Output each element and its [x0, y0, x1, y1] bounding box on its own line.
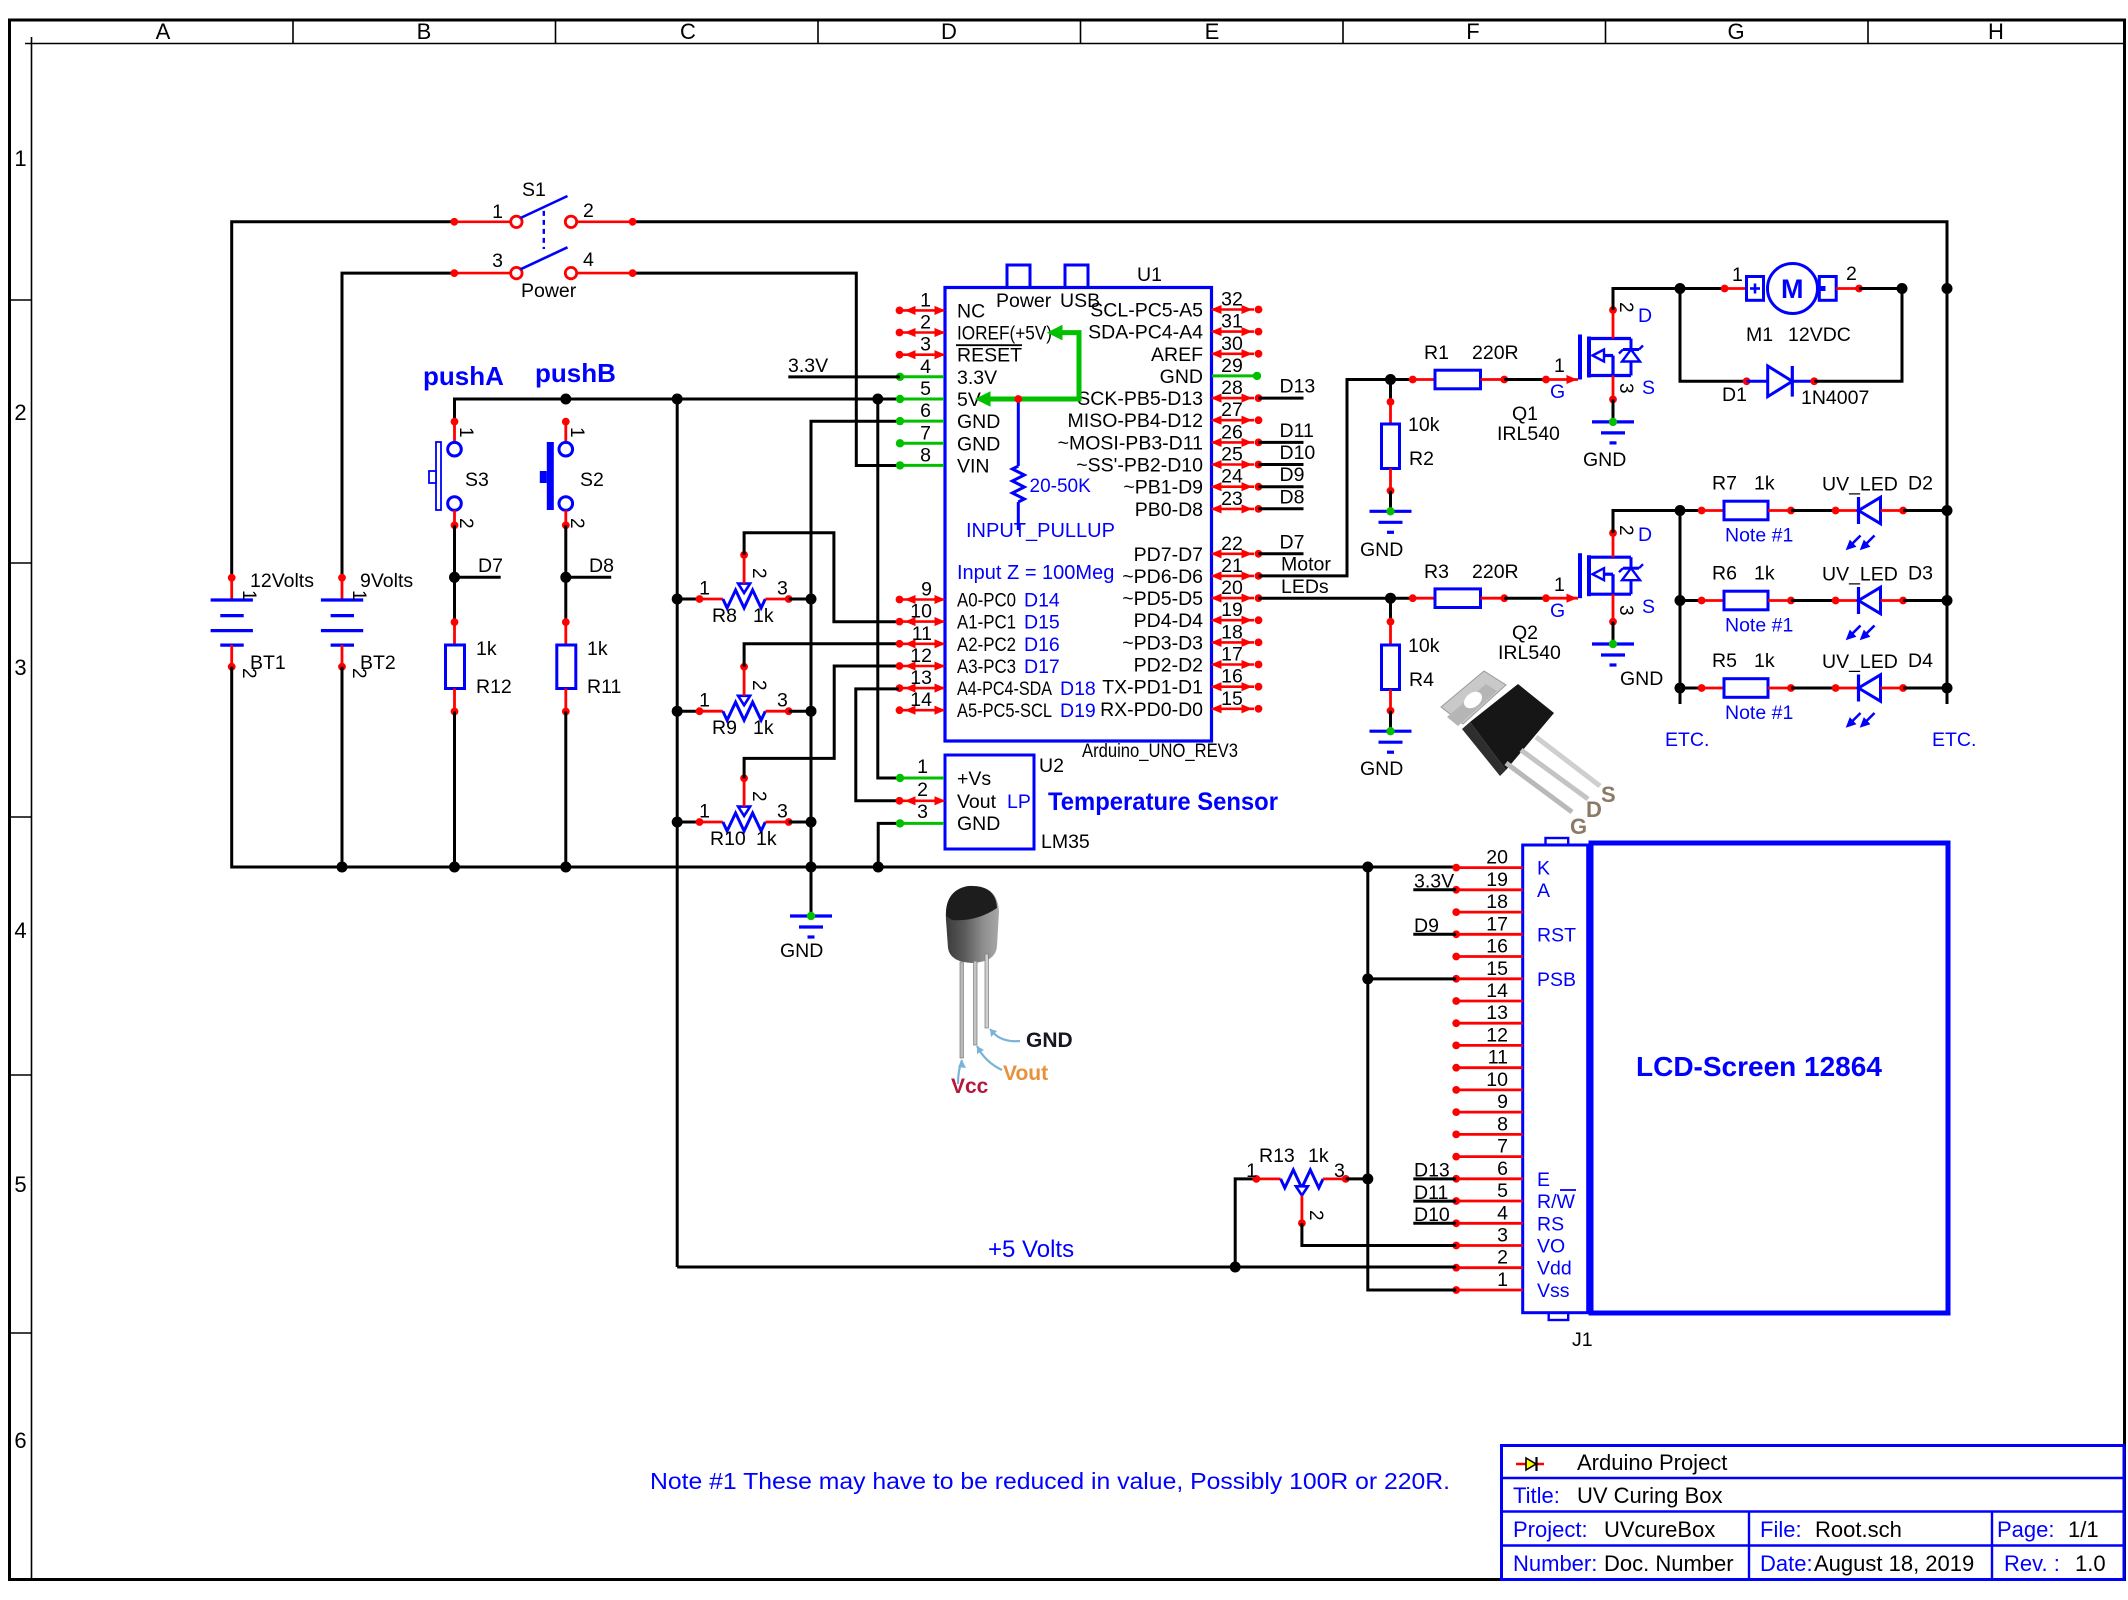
- svg-text:10k: 10k: [1408, 414, 1440, 436]
- svg-text:Arduino_UNO_REV3: Arduino_UNO_REV3: [1082, 740, 1238, 762]
- svg-text:2: 2: [748, 680, 769, 691]
- svg-text:29: 29: [1221, 355, 1243, 377]
- resistor R4 10k: [1382, 598, 1400, 731]
- svg-text:3.3V: 3.3V: [957, 367, 997, 389]
- U1 pin 9 A0-PC0 D14: [896, 579, 1060, 612]
- svg-text:Project:: Project:: [1513, 1517, 1588, 1542]
- svg-text:D1: D1: [1722, 384, 1747, 406]
- svg-text:1: 1: [566, 427, 587, 438]
- svg-text:UV_LED: UV_LED: [1822, 651, 1898, 673]
- TO-92 annotation arrows: [958, 1029, 1020, 1084]
- resistor R1 220R: [1391, 370, 1509, 389]
- U1 pin 12 A3-PC3 D17: [896, 645, 1060, 678]
- svg-text:U1: U1: [1137, 264, 1162, 286]
- svg-text:18: 18: [1221, 621, 1243, 643]
- svg-text:D17: D17: [1024, 656, 1060, 678]
- svg-text:SCK-PB5-D13: SCK-PB5-D13: [1077, 388, 1203, 410]
- svg-text:A5-PC5-SCL: A5-PC5-SCL: [957, 700, 1052, 722]
- svg-text:25: 25: [1221, 444, 1243, 466]
- svg-text:32: 32: [1221, 289, 1243, 311]
- svg-text:21: 21: [1221, 555, 1243, 577]
- wire R9 wiper to pin11 A2: [744, 644, 899, 667]
- svg-text:19: 19: [1221, 599, 1243, 621]
- U1 pin 1 NC: [896, 289, 986, 322]
- U1 pin 16 TX-PD1-D1: [1102, 666, 1262, 699]
- svg-text:GND: GND: [1360, 758, 1403, 780]
- svg-text:2: 2: [583, 200, 594, 222]
- svg-text:2: 2: [748, 568, 769, 579]
- wire S2 to node D8: [564, 525, 567, 577]
- U1 pin 28 SCK-PB5-D13: [1077, 377, 1262, 410]
- wire +5V pot bus: [676, 399, 679, 1267]
- svg-text:Rev. :: Rev. :: [2004, 1551, 2060, 1576]
- svg-text:9Volts: 9Volts: [360, 570, 413, 592]
- node R3 junction: [1385, 593, 1396, 604]
- svg-text:20-50K: 20-50K: [1030, 476, 1092, 497]
- svg-text:D14: D14: [1024, 590, 1060, 612]
- svg-text:R9: R9: [712, 717, 737, 739]
- svg-text:Vcc: Vcc: [951, 1075, 989, 1098]
- svg-text:Vout: Vout: [957, 791, 997, 813]
- svg-text:Q2: Q2: [1512, 622, 1538, 644]
- J1 pin 16: [1452, 936, 1522, 961]
- battery BT1: [211, 574, 253, 671]
- svg-text:D10: D10: [1280, 442, 1316, 464]
- resistor 20-50K pullup: [1012, 395, 1024, 530]
- svg-text:August 18, 2019: August 18, 2019: [1814, 1551, 1974, 1576]
- svg-text:Arduino Project: Arduino Project: [1577, 1450, 1727, 1475]
- wire BT1- to ground rail: [232, 667, 342, 867]
- wire from S1 pin3 to BT2+: [342, 273, 454, 578]
- svg-text:K: K: [1537, 858, 1550, 880]
- switch S1: [450, 196, 636, 279]
- svg-text:10k: 10k: [1408, 635, 1440, 657]
- svg-text:Date:: Date:: [1760, 1551, 1813, 1576]
- svg-text:RS: RS: [1537, 1213, 1564, 1235]
- svg-text:10: 10: [1486, 1069, 1508, 1091]
- svg-text:5: 5: [14, 1172, 26, 1197]
- svg-text:2: 2: [1497, 1247, 1508, 1269]
- U1 power connector tab: [1007, 265, 1030, 288]
- J1 pin 5: [1452, 1180, 1576, 1213]
- photo TO-92 LM35 package: [946, 886, 999, 1058]
- wire BT2- to ground rail: [341, 667, 344, 867]
- wire R1 to Q1 gate: [1504, 378, 1546, 381]
- svg-text:16: 16: [1486, 936, 1508, 958]
- J1 pin 4: [1452, 1202, 1564, 1235]
- svg-text:13: 13: [1486, 1002, 1508, 1024]
- svg-text:1k: 1k: [753, 605, 774, 627]
- U1 pin 27 MISO-PB4-D12: [1068, 399, 1263, 432]
- svg-text:2: 2: [920, 312, 931, 334]
- J1 pin 18: [1452, 891, 1522, 916]
- svg-text:G: G: [1570, 814, 1587, 839]
- svg-text:11: 11: [1488, 1047, 1508, 1069]
- svg-text:D9: D9: [1280, 464, 1305, 486]
- J1 pin 14: [1452, 980, 1522, 1005]
- svg-text:D11: D11: [1280, 420, 1314, 442]
- svg-text:IOREF(+5V): IOREF(+5V): [957, 323, 1052, 345]
- svg-text:UV Curing Box: UV Curing Box: [1577, 1483, 1723, 1508]
- svg-text:1: 1: [920, 289, 931, 311]
- svg-text:+Vs: +Vs: [957, 768, 991, 790]
- svg-text:3: 3: [917, 801, 928, 823]
- svg-text:3: 3: [492, 250, 503, 272]
- node D8: [560, 572, 571, 583]
- svg-text:Power: Power: [521, 280, 577, 302]
- svg-text:8: 8: [1497, 1113, 1508, 1135]
- svg-text:12VDC: 12VDC: [1788, 324, 1851, 346]
- svg-text:20: 20: [1221, 577, 1243, 599]
- svg-text:D2: D2: [1908, 473, 1933, 495]
- svg-text:~SS'-PB2-D10: ~SS'-PB2-D10: [1076, 455, 1203, 477]
- resistor R12: [446, 577, 465, 872]
- svg-text:Note #1: Note #1: [1725, 525, 1793, 547]
- svg-text:1k: 1k: [587, 638, 608, 660]
- svg-text:Number:: Number:: [1513, 1551, 1597, 1576]
- svg-text:~PB1-D9: ~PB1-D9: [1123, 477, 1203, 499]
- J1 pin 2: [1452, 1247, 1571, 1280]
- svg-text:PB0-D8: PB0-D8: [1135, 499, 1203, 521]
- U1 pin 26 ~MOSI-PB3-D11: [1058, 421, 1263, 454]
- net D9 at pin24: [1259, 485, 1304, 488]
- Q1 drain lead: [1612, 310, 1615, 339]
- svg-text:Title:: Title:: [1513, 1483, 1560, 1508]
- J1 pin 10: [1452, 1069, 1522, 1094]
- svg-text:A4-PC4-SDA: A4-PC4-SDA: [957, 678, 1052, 700]
- svg-text:19: 19: [1486, 869, 1508, 891]
- svg-text:18: 18: [1486, 891, 1508, 913]
- svg-text:R5: R5: [1712, 650, 1737, 672]
- U1 pin 23 PB0-D8: [1135, 488, 1263, 521]
- wire R10 wiper to pin12 A3: [744, 666, 899, 778]
- svg-text:BT2: BT2: [360, 652, 396, 674]
- svg-text:6: 6: [1497, 1158, 1508, 1180]
- svg-text:VO: VO: [1537, 1236, 1565, 1258]
- svg-text:UV_LED: UV_LED: [1822, 474, 1898, 496]
- svg-text:D13: D13: [1280, 376, 1316, 398]
- svg-text:D18: D18: [1060, 678, 1096, 700]
- wire LEDs net pin20 to R3 junction: [1259, 597, 1391, 600]
- svg-text:R10: R10: [710, 828, 746, 850]
- svg-text:GND: GND: [957, 813, 1000, 835]
- svg-text:PD2-D2: PD2-D2: [1134, 655, 1203, 677]
- svg-text:LCD-Screen 12864: LCD-Screen 12864: [1636, 1051, 1882, 1082]
- svg-text:D4: D4: [1908, 650, 1933, 672]
- svg-text:14: 14: [1486, 980, 1508, 1002]
- photo TO-220 IRL540 package: [1441, 671, 1600, 812]
- Q2 source lead: [1612, 594, 1615, 622]
- svg-text:ETC.: ETC.: [1932, 729, 1976, 751]
- svg-text:A3-PC3: A3-PC3: [957, 656, 1016, 678]
- J1 pin 13: [1452, 1002, 1522, 1027]
- svg-text:15: 15: [1221, 688, 1243, 710]
- svg-text:G: G: [1727, 19, 1744, 44]
- svg-text:H: H: [1988, 19, 2004, 44]
- svg-text:D13: D13: [1414, 1160, 1450, 1182]
- svg-text:~PD6-D6: ~PD6-D6: [1122, 566, 1203, 588]
- net D7 at pin22: [1259, 552, 1304, 555]
- svg-text:F: F: [1466, 19, 1479, 44]
- U1 pin 18 ~PD3-D3: [1122, 621, 1262, 654]
- svg-text:PSB: PSB: [1537, 969, 1576, 991]
- wire S3 to node D7: [453, 525, 456, 577]
- svg-text:VIN: VIN: [957, 455, 990, 477]
- J1 pin 3: [1452, 1225, 1565, 1258]
- svg-text:NC: NC: [957, 300, 985, 322]
- svg-text:5: 5: [1497, 1180, 1508, 1202]
- svg-text:RST: RST: [1537, 924, 1576, 946]
- wire left LED bus: [1679, 511, 1682, 705]
- svg-text:2: 2: [1846, 263, 1857, 285]
- wire 9V switched from S1 pin4 to VIN pin8: [633, 273, 899, 465]
- U1 pin 2 IOREF(+5V): [896, 312, 1052, 345]
- resistor R2 10k: [1382, 380, 1400, 512]
- svg-text:J1: J1: [1572, 1329, 1593, 1351]
- svg-text:1: 1: [1246, 1160, 1257, 1182]
- svg-text:Vdd: Vdd: [1537, 1258, 1572, 1280]
- ground symbol below rail: [790, 912, 832, 937]
- svg-text:3: 3: [1497, 1225, 1508, 1247]
- svg-text:GND: GND: [780, 940, 823, 962]
- connector J1 body: [1523, 845, 1588, 1313]
- svg-text:IRL540: IRL540: [1497, 423, 1560, 445]
- svg-text:1k: 1k: [1754, 650, 1775, 672]
- svg-text:23: 23: [1221, 488, 1243, 510]
- svg-text:IRL540: IRL540: [1498, 642, 1561, 664]
- svg-text:1k: 1k: [756, 828, 777, 850]
- svg-text:~PD5-D5: ~PD5-D5: [1122, 588, 1203, 610]
- J1 pin 8: [1452, 1113, 1522, 1138]
- J1 pin 7: [1452, 1136, 1522, 1161]
- svg-text:ETC.: ETC.: [1665, 729, 1709, 751]
- svg-text:Q1: Q1: [1512, 403, 1538, 425]
- svg-text:12Volts: 12Volts: [250, 570, 314, 592]
- svg-text:SCL-PC5-A5: SCL-PC5-A5: [1090, 300, 1203, 322]
- svg-text:220R: 220R: [1472, 561, 1519, 583]
- svg-text:1: 1: [1554, 574, 1565, 596]
- wire 12V from S1 pin1 to BT1+: [232, 222, 455, 578]
- svg-text:pushB: pushB: [535, 358, 616, 388]
- svg-text:TX-PD1-D1: TX-PD1-D1: [1102, 677, 1203, 699]
- svg-text:2: 2: [14, 400, 26, 425]
- svg-text:S: S: [1642, 596, 1655, 618]
- svg-text:1: 1: [699, 690, 710, 712]
- IC U1 Arduino body: [945, 288, 1212, 742]
- svg-text:1k: 1k: [1308, 1145, 1329, 1167]
- net D10 at J1 pin4: [1413, 1222, 1456, 1225]
- svg-text:SDA-PC4-A4: SDA-PC4-A4: [1088, 322, 1203, 344]
- svg-text:Note #1: Note #1: [1725, 615, 1793, 637]
- svg-text:Doc. Number: Doc. Number: [1604, 1551, 1734, 1576]
- frame row ticks: [9, 299, 32, 301]
- svg-text:S: S: [1601, 782, 1616, 807]
- svg-text:S3: S3: [465, 469, 489, 491]
- svg-text:2: 2: [1305, 1210, 1326, 1221]
- svg-text:9: 9: [921, 579, 932, 601]
- net D8 at pin23: [1259, 507, 1304, 510]
- svg-text:3.3V: 3.3V: [1414, 871, 1454, 893]
- U1 pin 6 GND: [896, 400, 1001, 433]
- svg-text:1k: 1k: [1754, 563, 1775, 585]
- svg-text:2: 2: [566, 518, 587, 529]
- motor M1: [1680, 264, 1902, 314]
- wire 12V switched from S1 pin2 to motor bus: [633, 222, 1947, 289]
- svg-text:6: 6: [920, 400, 931, 422]
- transistor Q2 IRL540: [1580, 553, 1643, 598]
- svg-text:Power: Power: [996, 290, 1052, 312]
- net D13 at pin28: [1259, 397, 1304, 400]
- svg-text:D: D: [1586, 797, 1602, 822]
- svg-text:GND: GND: [1583, 449, 1626, 471]
- wire R3 to Q2 gate: [1504, 597, 1546, 600]
- wire GND pot bus to GND symbol: [811, 421, 899, 916]
- svg-text:A1-PC1: A1-PC1: [957, 612, 1016, 634]
- U1 pin 10 A1-PC1 D15: [896, 601, 1060, 634]
- svg-text:D3: D3: [1908, 563, 1933, 585]
- svg-text:C: C: [680, 19, 696, 44]
- U1 pin 24 ~PB1-D9: [1123, 466, 1262, 499]
- U1 pin 22 PD7-D7: [1134, 533, 1263, 566]
- svg-text:4: 4: [14, 918, 26, 943]
- svg-text:7: 7: [1497, 1136, 1508, 1158]
- node motor right: [1897, 283, 1908, 294]
- svg-text:R1: R1: [1424, 342, 1449, 364]
- svg-text:1k: 1k: [476, 638, 497, 660]
- U1 pin 14 A5-PC5-SCL D19: [896, 689, 1096, 722]
- resistor R11: [557, 577, 576, 872]
- svg-text:D: D: [1638, 305, 1652, 327]
- svg-text:4: 4: [920, 356, 931, 378]
- svg-text:+5 Volts: +5 Volts: [988, 1236, 1074, 1263]
- potentiometer R13: [1230, 1170, 1457, 1273]
- svg-text:D9: D9: [1414, 915, 1439, 937]
- svg-text:GND: GND: [957, 411, 1000, 433]
- svg-text:E: E: [1205, 19, 1220, 44]
- svg-text:PD4-D4: PD4-D4: [1134, 610, 1204, 632]
- J1 pin 6: [1452, 1158, 1550, 1191]
- U1 pin 5 5V: [896, 378, 981, 411]
- svg-text:12: 12: [910, 645, 932, 667]
- svg-text:3: 3: [14, 655, 26, 680]
- U1 pin 30 AREF: [1151, 333, 1262, 366]
- U1 pin 11 A2-PC2 D16: [896, 623, 1060, 656]
- pushbutton S2: [540, 418, 573, 529]
- svg-text:Motor: Motor: [1281, 554, 1331, 576]
- J1 pin 15: [1452, 958, 1576, 991]
- wire R8 wiper to pin10 A1: [744, 533, 899, 622]
- svg-text:~PD3-D3: ~PD3-D3: [1122, 632, 1203, 654]
- svg-text:A0-PC0: A0-PC0: [957, 590, 1016, 612]
- potentiometer R9: [672, 663, 817, 720]
- net D10 at pin25: [1259, 463, 1304, 466]
- wire LM35 Vout to pin13 A4: [856, 689, 900, 801]
- U1 pin 15 RX-PD0-D0: [1100, 688, 1262, 721]
- svg-text:6: 6: [14, 1428, 26, 1453]
- LCD screen body: [1591, 843, 1948, 1313]
- svg-text:3: 3: [920, 334, 931, 356]
- svg-text:1.0: 1.0: [2075, 1551, 2106, 1576]
- svg-text:3: 3: [1334, 1160, 1345, 1182]
- svg-text:RESET: RESET: [957, 345, 1022, 367]
- svg-text:3: 3: [777, 801, 788, 823]
- svg-text:R3: R3: [1424, 561, 1449, 583]
- svg-text:LM35: LM35: [1041, 831, 1090, 853]
- J1 pin 12: [1452, 1024, 1522, 1049]
- svg-text:1: 1: [14, 146, 26, 171]
- svg-text:A: A: [1537, 880, 1550, 902]
- J1 pin 19: [1452, 869, 1550, 902]
- frame column ticks: [292, 20, 294, 44]
- svg-text:R6: R6: [1712, 563, 1737, 585]
- J1 pin 11: [1452, 1047, 1522, 1072]
- svg-text:28: 28: [1221, 377, 1243, 399]
- U1 pin 21 ~PD6-D6: [1122, 555, 1262, 588]
- svg-text:Note #1: Note #1: [1725, 702, 1793, 724]
- J1 pin 1: [1452, 1269, 1569, 1302]
- svg-text:pushA: pushA: [423, 361, 504, 391]
- frame inner lines: [25, 43, 2124, 45]
- svg-text:5: 5: [920, 378, 931, 400]
- J1 pin 9: [1452, 1091, 1522, 1116]
- svg-text:1k: 1k: [753, 717, 774, 739]
- svg-text:1/1: 1/1: [2068, 1517, 2099, 1542]
- svg-text:U2: U2: [1039, 755, 1064, 777]
- svg-text:1N4007: 1N4007: [1801, 387, 1869, 409]
- svg-text:S1: S1: [522, 179, 546, 201]
- ground symbol Q2 source: [1592, 640, 1634, 665]
- svg-text:R7: R7: [1712, 473, 1737, 495]
- ground symbol R4: [1370, 727, 1412, 752]
- svg-text:G: G: [1550, 381, 1565, 403]
- svg-text:10: 10: [910, 601, 932, 623]
- net D11 at pin26: [1259, 441, 1304, 444]
- svg-text:D19: D19: [1060, 700, 1096, 722]
- svg-text:26: 26: [1221, 421, 1243, 443]
- svg-text:GND: GND: [1026, 1029, 1073, 1052]
- svg-text:D: D: [1638, 524, 1652, 546]
- node D7: [449, 572, 460, 583]
- potentiometer R8: [672, 551, 817, 608]
- svg-text:GND: GND: [957, 433, 1000, 455]
- svg-text:R13: R13: [1259, 1145, 1295, 1167]
- U1 pin 3 RESET: [896, 334, 1023, 367]
- ground symbol Q1 source: [1592, 418, 1634, 443]
- svg-text:2: 2: [748, 791, 769, 802]
- U1 pin 29 GND: [1160, 355, 1262, 388]
- U1 pin 7 GND: [896, 422, 1001, 455]
- title block logo diode: [1516, 1457, 1544, 1471]
- svg-text:1: 1: [699, 578, 710, 600]
- svg-text:A2-PC2: A2-PC2: [957, 634, 1016, 656]
- svg-text:MISO-PB4-D12: MISO-PB4-D12: [1068, 410, 1203, 432]
- svg-text:RX-PD0-D0: RX-PD0-D0: [1100, 699, 1203, 721]
- wire ground rail: [232, 866, 1457, 869]
- svg-text:Vout: Vout: [1003, 1062, 1048, 1085]
- svg-text:15: 15: [1486, 958, 1508, 980]
- svg-text:1: 1: [1554, 355, 1565, 377]
- svg-text:Root.sch: Root.sch: [1815, 1517, 1902, 1542]
- svg-text:Temperature Sensor: Temperature Sensor: [1048, 788, 1278, 816]
- svg-text:D11: D11: [1414, 1182, 1448, 1204]
- wire 5V rail: [455, 399, 899, 422]
- svg-text:File:: File:: [1760, 1517, 1802, 1542]
- resistor R5 1k and UV LED D4: [1675, 675, 1953, 728]
- svg-text:2: 2: [1615, 302, 1636, 313]
- net D9 at J1 pin17: [1413, 933, 1456, 936]
- svg-text:17: 17: [1221, 644, 1243, 666]
- svg-text:LEDs: LEDs: [1281, 576, 1329, 598]
